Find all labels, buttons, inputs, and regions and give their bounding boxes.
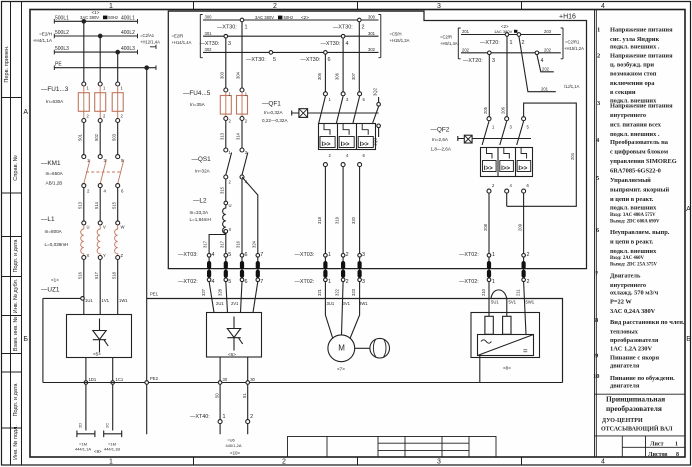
svg-text:301: 301 — [368, 31, 376, 36]
svg-text:501: 501 — [78, 133, 83, 141]
svg-text:327: 327 — [201, 288, 206, 296]
svg-text:1AC 1,2A 230V: 1AC 1,2A 230V — [610, 346, 652, 353]
svg-text:317: 317 — [203, 240, 208, 248]
svg-text:P=22 W: P=22 W — [610, 299, 632, 306]
svg-text:In=630A: In=630A — [46, 99, 64, 104]
svg-text:W: W — [121, 225, 125, 230]
svg-text:<9>: <9> — [94, 449, 102, 454]
svg-text:5: 5 — [273, 57, 276, 63]
svg-text:Напряжение питания: Напряжение питания — [610, 103, 673, 110]
svg-text:<2>: <2> — [301, 15, 309, 20]
svg-text:подкл. внешних .: подкл. внешних . — [610, 44, 660, 51]
svg-text:211: 211 — [515, 289, 520, 296]
svg-text:3AC 380V: 3AC 380V — [80, 15, 99, 20]
svg-text:=: = — [523, 347, 528, 356]
svg-text:202: 202 — [542, 67, 550, 72]
svg-text:5: 5 — [596, 175, 599, 182]
svg-text:I>>: I>> — [518, 165, 527, 172]
svg-text:2: 2 — [522, 40, 525, 46]
svg-text:управления SIMOREG: управления SIMOREG — [610, 158, 677, 165]
svg-text:0,22—0,32A: 0,22—0,32A — [262, 118, 288, 123]
svg-text:322: 322 — [335, 288, 340, 296]
svg-text:+H15/1,3A: +H15/1,3A — [390, 38, 410, 43]
svg-text:Перв. примен.: Перв. примен. — [4, 45, 10, 83]
svg-text:318: 318 — [317, 216, 322, 224]
svg-text:I>>: I>> — [484, 165, 493, 172]
svg-text:сис. узла Яндрик: сис. узла Яндрик — [610, 36, 659, 43]
svg-text:I>>: I>> — [501, 165, 510, 172]
svg-text:1: 1 — [109, 3, 113, 10]
svg-text:—QF2: —QF2 — [431, 127, 450, 134]
svg-text:2V1: 2V1 — [231, 301, 239, 306]
svg-text:6RA7085-6GS22-0: 6RA7085-6GS22-0 — [610, 168, 661, 175]
svg-text:преобразователя: преобразователя — [610, 337, 659, 344]
svg-text:In=650A: In=650A — [46, 171, 64, 176]
svg-text:2: 2 — [362, 25, 365, 31]
svg-text:202: 202 — [544, 47, 552, 52]
svg-text:10: 10 — [593, 373, 599, 380]
svg-text:=C2/R: =C2/R — [440, 35, 452, 40]
svg-text:5: 5 — [228, 252, 231, 258]
svg-text:208: 208 — [483, 223, 488, 231]
svg-text:<7>: <7> — [337, 367, 345, 372]
svg-text:2U1: 2U1 — [216, 301, 224, 306]
svg-text:500L1: 500L1 — [55, 15, 69, 21]
svg-text:I>>: I>> — [322, 141, 331, 148]
svg-text:2: 2 — [273, 3, 277, 10]
svg-text:1AC 380V: 1AC 380V — [494, 29, 513, 34]
svg-text:1C1: 1C1 — [116, 377, 124, 382]
svg-text:8: 8 — [595, 317, 598, 324]
svg-text:выпрямит. якорный: выпрямит. якорный — [610, 187, 669, 194]
svg-text:1: 1 — [510, 40, 513, 46]
svg-text:317: 317 — [219, 240, 224, 248]
svg-text:315: 315 — [219, 186, 224, 194]
svg-text:<1>: <1> — [51, 278, 59, 283]
svg-text:M: M — [338, 344, 345, 353]
svg-text:—XT03:: —XT03: — [295, 252, 315, 258]
svg-text:Вход: 3AC 480A 575V: Вход: 3AC 480A 575V — [610, 213, 656, 218]
svg-text:5W1: 5W1 — [526, 300, 535, 305]
svg-text:440/1,2A: 440/1,2A — [225, 443, 241, 448]
svg-text:двигателя: двигателя — [610, 363, 640, 370]
svg-text:3: 3 — [362, 279, 365, 285]
svg-text:314: 314 — [236, 132, 241, 140]
svg-text:3: 3 — [437, 3, 441, 10]
svg-text:9: 9 — [595, 353, 598, 360]
svg-text:PE: PE — [55, 62, 62, 68]
svg-text:и цепи в реакт.: и цепи в реакт. — [610, 239, 654, 246]
svg-text:51: 51 — [242, 393, 247, 398]
svg-text:—KM1: —KM1 — [41, 160, 61, 167]
svg-text:3: 3 — [362, 252, 365, 258]
svg-text:4: 4 — [601, 459, 605, 466]
svg-text:1,8—2,6A: 1,8—2,6A — [431, 147, 452, 152]
svg-text:2: 2 — [597, 53, 600, 60]
svg-text:подкл. внешних: подкл. внешних — [610, 205, 657, 212]
svg-text:Двигатель: Двигатель — [610, 273, 641, 280]
svg-text:319: 319 — [335, 216, 340, 224]
svg-text:1: 1 — [223, 414, 226, 420]
svg-text:внутреннего: внутреннего — [610, 112, 646, 119]
svg-text:204: 204 — [570, 152, 575, 160]
svg-text:6: 6 — [328, 57, 331, 63]
svg-text:X: X — [87, 253, 90, 258]
svg-text:517: 517 — [94, 271, 99, 279]
svg-text:=C2/R1: =C2/R1 — [565, 40, 580, 45]
svg-text:Y: Y — [103, 253, 106, 258]
svg-text:1: 1 — [492, 252, 495, 258]
svg-text:50Hz: 50Hz — [108, 15, 118, 20]
svg-text:Подп. и дата: Подп. и дата — [13, 239, 19, 273]
svg-text:1: 1 — [109, 459, 113, 466]
svg-text:321: 321 — [317, 288, 322, 296]
svg-text:—QF1: —QF1 — [262, 101, 281, 108]
svg-text:ДУО-ЦЕНТРИ: ДУО-ЦЕНТРИ — [602, 418, 643, 424]
svg-text:50: 50 — [214, 393, 219, 398]
svg-text:4: 4 — [346, 41, 349, 47]
svg-text:3W1: 3W1 — [359, 301, 368, 306]
svg-text:3: 3 — [437, 459, 441, 466]
svg-text:In=0,32A: In=0,32A — [264, 110, 283, 115]
svg-text:2C: 2C — [105, 423, 110, 428]
svg-text:—XT03:: —XT03: — [178, 252, 198, 258]
svg-text:<10>: <10> — [230, 451, 240, 456]
svg-text:Вид расстановки по член.: Вид расстановки по член. — [610, 319, 685, 326]
svg-text:PE1: PE1 — [150, 292, 159, 297]
svg-text:тепловых: тепловых — [610, 329, 639, 336]
svg-text:2: 2 — [346, 252, 349, 258]
svg-text:4: 4 — [601, 3, 605, 10]
svg-text:—XT02:: —XT02: — [178, 279, 198, 285]
svg-text:Пинание с якоря: Пинание с якоря — [610, 355, 660, 362]
svg-text:—XT40:: —XT40: — [190, 414, 210, 420]
svg-text:In=800A: In=800A — [45, 229, 63, 234]
svg-text:—XT02:: —XT02: — [459, 252, 479, 258]
svg-text:514: 514 — [94, 201, 99, 209]
svg-text:In=32A: In=32A — [195, 169, 211, 174]
svg-text:3: 3 — [228, 41, 231, 47]
svg-text:Напряжение питания: Напряжение питания — [610, 27, 673, 34]
svg-text:с цифровым блоком: с цифровым блоком — [610, 149, 669, 156]
svg-text:Z: Z — [121, 253, 124, 258]
svg-text:U: U — [87, 225, 90, 230]
svg-text:In=33,3A: In=33,3A — [190, 210, 209, 215]
svg-text:I>>: I>> — [341, 141, 350, 148]
svg-text:=E2/R: =E2/R — [172, 34, 184, 39]
svg-text:4: 4 — [212, 279, 215, 285]
svg-text:в секции: в секции — [610, 89, 636, 96]
svg-text:<5>: <5> — [93, 352, 101, 357]
svg-text:—QS1: —QS1 — [192, 156, 212, 163]
svg-text:300: 300 — [205, 15, 213, 20]
svg-text:подкл. внешних .: подкл. внешних . — [610, 131, 660, 138]
svg-text:1: 1 — [328, 279, 331, 285]
svg-text:=E2/H: =E2/H — [39, 31, 52, 36]
svg-text:301: 301 — [205, 31, 213, 36]
svg-text:1D1: 1D1 — [89, 377, 97, 382]
svg-text:преобразователя: преобразователя — [606, 404, 662, 413]
svg-text:328: 328 — [218, 288, 223, 296]
svg-text:охлажд. 570 м3/ч: охлажд. 570 м3/ч — [610, 290, 659, 297]
svg-text:205: 205 — [483, 106, 488, 114]
svg-text:300: 300 — [368, 15, 376, 20]
svg-text:—XT30:: —XT30: — [246, 57, 266, 63]
svg-text:444/1,1A: 444/1,1A — [75, 447, 91, 452]
svg-text:313: 313 — [219, 132, 224, 140]
svg-text:303: 303 — [219, 71, 224, 79]
svg-text:7: 7 — [260, 279, 263, 285]
svg-text:Листов: Листов — [648, 452, 668, 458]
svg-text:Преобразователь на: Преобразователь на — [610, 139, 669, 146]
svg-text:V: V — [103, 225, 106, 230]
svg-text:5V1: 5V1 — [509, 300, 517, 305]
svg-text:6: 6 — [245, 279, 248, 285]
svg-text:7: 7 — [260, 252, 263, 258]
svg-text:Принципиальная: Принципиальная — [606, 395, 665, 404]
svg-text:209: 209 — [517, 223, 522, 231]
svg-text:306: 306 — [335, 72, 340, 80]
svg-text:—XT30:: —XT30: — [301, 57, 321, 63]
svg-text:=U6: =U6 — [227, 438, 235, 443]
svg-text:—XT02:: —XT02: — [459, 279, 479, 285]
svg-text:ист. питания всех: ист. питания всех — [610, 122, 662, 129]
svg-text:30: 30 — [250, 377, 255, 382]
svg-text:и цепи в реакт.: и цепи в реакт. — [610, 196, 654, 203]
svg-text:I>>: I>> — [360, 141, 369, 148]
svg-text:A: A — [686, 206, 691, 213]
svg-text:=C2/A1: =C2/A1 — [140, 33, 155, 38]
svg-text:50Hz: 50Hz — [284, 15, 294, 20]
svg-text:1V1: 1V1 — [102, 298, 110, 303]
svg-text:316: 316 — [236, 240, 241, 248]
svg-text:—L1: —L1 — [41, 216, 55, 223]
svg-text:2D: 2D — [78, 423, 83, 428]
svg-text:A: A — [23, 109, 28, 116]
svg-text:L=0,038mH: L=0,038mH — [45, 242, 69, 247]
svg-text:210: 210 — [481, 288, 486, 296]
svg-text:Вход: 2AC 460V: Вход: 2AC 460V — [610, 256, 645, 261]
svg-text:304: 304 — [236, 71, 241, 79]
svg-text:—FU1...3: —FU1...3 — [41, 86, 69, 93]
svg-text:2: 2 — [527, 252, 530, 258]
svg-text:возможном стоп: возможном стоп — [610, 71, 657, 78]
svg-text:Пинание по обужденн.: Пинание по обужденн. — [610, 375, 675, 382]
svg-text:+H14/1,4A: +H14/1,4A — [172, 40, 192, 45]
svg-text:—UZ1: —UZ1 — [41, 287, 60, 294]
svg-text:201: 201 — [541, 86, 549, 91]
svg-text:PE2: PE2 — [150, 376, 159, 381]
svg-text:500L3: 500L3 — [55, 46, 69, 52]
svg-text:Выход: 2DC 25A 375V: Выход: 2DC 25A 375V — [610, 263, 658, 268]
svg-text:Управляемый: Управляемый — [610, 177, 651, 184]
svg-text:2: 2 — [282, 459, 286, 466]
svg-text:ОТСАСЫВАЮЩИЙ ВАЛ: ОТСАСЫВАЮЩИЙ ВАЛ — [601, 425, 673, 433]
svg-text:—XT30:: —XT30: — [321, 41, 341, 47]
svg-text:513: 513 — [78, 201, 83, 209]
svg-text:X: X — [229, 227, 232, 232]
svg-text:Лист: Лист — [650, 442, 664, 448]
svg-text:AB/1,2B: AB/1,2B — [46, 181, 63, 186]
svg-text:515: 515 — [112, 201, 117, 209]
svg-text:203: 203 — [544, 29, 552, 34]
svg-text:Б: Б — [686, 336, 691, 343]
svg-text:202: 202 — [462, 47, 470, 52]
svg-text:Инв. № подл.: Инв. № подл. — [13, 425, 19, 460]
svg-text:/1J/1,1A: /1J/1,1A — [564, 84, 580, 89]
svg-text:двигателя: двигателя — [610, 383, 640, 390]
svg-text:5: 5 — [228, 279, 231, 285]
svg-text:Неуправляем. выпр.: Неуправляем. выпр. — [610, 229, 670, 236]
svg-text:внутреннего: внутреннего — [610, 282, 646, 289]
svg-text:3V1: 3V1 — [343, 301, 351, 306]
svg-text:<2>: <2> — [501, 24, 509, 29]
svg-text:323: 323 — [351, 288, 356, 296]
svg-text:—XT30:: —XT30: — [217, 25, 237, 31]
svg-text:+H12/1,4A: +H12/1,4A — [140, 39, 160, 44]
svg-text:включении ора: включении ора — [610, 80, 655, 87]
svg-text:1Q2: 1Q2 — [373, 137, 378, 146]
svg-text:320: 320 — [351, 216, 356, 224]
svg-text:<8>: <8> — [503, 366, 511, 371]
svg-text:302: 302 — [368, 47, 376, 52]
svg-text:444/1,1B: 444/1,1B — [104, 447, 120, 452]
svg-text:1: 1 — [675, 442, 678, 448]
svg-text:In=35A: In=35A — [190, 102, 206, 107]
svg-text:4: 4 — [541, 58, 544, 64]
svg-text:+H5/1,4A: +H5/1,4A — [440, 41, 458, 46]
svg-text:502: 502 — [94, 133, 99, 141]
svg-text:In=2,6A: In=2,6A — [432, 137, 449, 142]
svg-text:Справ. №: Справ. № — [13, 155, 19, 180]
svg-text:3U1: 3U1 — [327, 301, 335, 306]
svg-text:5U1: 5U1 — [491, 300, 499, 305]
svg-text:—XT30:: —XT30: — [333, 25, 353, 31]
svg-text:1: 1 — [597, 27, 600, 34]
svg-text:324: 324 — [252, 240, 257, 248]
svg-text:400L1: 400L1 — [121, 15, 135, 21]
svg-text:2: 2 — [527, 279, 530, 285]
svg-text:1: 1 — [245, 25, 248, 31]
svg-text:3: 3 — [492, 58, 495, 64]
svg-text:Подп. и дата: Подп. и дата — [13, 383, 19, 417]
svg-text:—XT02:: —XT02: — [295, 279, 315, 285]
svg-text:1W1: 1W1 — [119, 298, 128, 303]
svg-text:Б: Б — [23, 336, 28, 343]
svg-text:3AC 0,24A 380V: 3AC 0,24A 380V — [610, 308, 656, 315]
svg-text:U: U — [229, 203, 232, 208]
svg-text:подкл. внешних: подкл. внешних — [610, 248, 657, 255]
svg-text:+H15/1,2A: +H15/1,2A — [564, 46, 584, 51]
svg-text:400L2: 400L2 — [121, 30, 135, 36]
svg-text:+H4/1,1A: +H4/1,1A — [33, 38, 53, 43]
svg-text:3: 3 — [597, 100, 600, 107]
svg-text:4: 4 — [212, 252, 215, 258]
svg-text:<1>: <1> — [92, 10, 100, 15]
svg-text:Выход: 2DC 600A 690V: Выход: 2DC 600A 690V — [610, 220, 660, 225]
svg-text:1U1: 1U1 — [85, 298, 93, 303]
svg-text:518: 518 — [112, 271, 117, 279]
svg-text:—XT20:: —XT20: — [480, 40, 500, 46]
svg-text:Взам. инв. №: Взам. инв. № — [13, 317, 19, 352]
svg-text:307: 307 — [351, 72, 356, 80]
svg-text:<6>: <6> — [228, 352, 236, 357]
svg-text:503: 503 — [112, 133, 117, 141]
svg-text:L=1,84mH: L=1,84mH — [190, 217, 211, 222]
svg-text:30: 30 — [223, 377, 228, 382]
svg-text:Напряжение питания: Напряжение питания — [610, 53, 673, 60]
svg-text:Инв. № дубл.: Инв. № дубл. — [13, 278, 19, 313]
svg-text:=C5/H: =C5/H — [390, 32, 402, 37]
svg-text:6: 6 — [245, 252, 248, 258]
svg-text:516: 516 — [78, 271, 83, 279]
svg-text:500L2: 500L2 — [55, 30, 69, 36]
svg-text:+H16: +H16 — [559, 14, 576, 21]
svg-text:302: 302 — [205, 47, 213, 52]
svg-text:201: 201 — [462, 29, 470, 34]
svg-text:305: 305 — [317, 72, 322, 80]
svg-text:400L3: 400L3 — [121, 46, 135, 52]
svg-text:—FU4...5: —FU4...5 — [183, 90, 211, 97]
svg-text:3AC 380V: 3AC 380V — [255, 15, 274, 20]
svg-text:8: 8 — [676, 452, 679, 458]
svg-text:—L2: —L2 — [193, 198, 207, 205]
svg-text:2: 2 — [250, 414, 253, 420]
svg-text:—XT30:: —XT30: — [200, 41, 220, 47]
svg-text:206: 206 — [501, 106, 506, 114]
svg-text:1: 1 — [492, 279, 495, 285]
svg-text:2: 2 — [346, 279, 349, 285]
svg-text:—XT20:: —XT20: — [463, 58, 483, 64]
svg-text:1: 1 — [328, 252, 331, 258]
svg-text:3Q2: 3Q2 — [373, 87, 378, 96]
svg-text:ц. возбужд. при: ц. возбужд. при — [610, 62, 654, 69]
